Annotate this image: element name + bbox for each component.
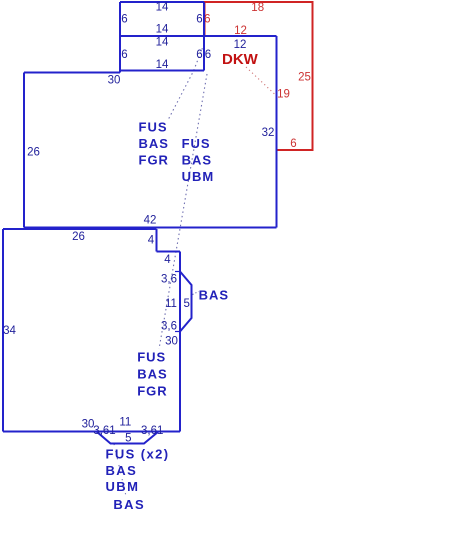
- svg-text:6: 6: [196, 49, 202, 61]
- svg-text:6: 6: [205, 49, 211, 61]
- svg-text:18: 18: [251, 2, 264, 14]
- svg-text:FUS: FUS: [137, 350, 166, 365]
- svg-text:BAS: BAS: [113, 497, 145, 512]
- svg-text:4: 4: [164, 254, 171, 266]
- svg-text:BAS: BAS: [106, 463, 138, 478]
- svg-text:30: 30: [165, 335, 178, 347]
- svg-text:4: 4: [148, 235, 155, 247]
- svg-text:11: 11: [119, 416, 131, 428]
- svg-text:32: 32: [262, 127, 275, 139]
- svg-text:30: 30: [108, 74, 121, 86]
- svg-text:6: 6: [204, 13, 210, 25]
- svg-text:UBM: UBM: [106, 479, 140, 494]
- svg-text:3,61: 3,61: [93, 425, 115, 437]
- svg-text:34: 34: [3, 325, 16, 337]
- svg-text:3,6: 3,6: [161, 273, 177, 285]
- svg-text:14: 14: [156, 23, 169, 35]
- svg-text:FGR: FGR: [137, 383, 167, 398]
- svg-text:FUS (x2): FUS (x2): [106, 446, 170, 461]
- svg-text:FUS: FUS: [139, 119, 168, 134]
- svg-text:FUS: FUS: [182, 136, 211, 151]
- svg-text:42: 42: [144, 215, 157, 227]
- svg-text:12: 12: [234, 25, 247, 37]
- svg-text:BAS: BAS: [137, 367, 167, 382]
- svg-text:3,6: 3,6: [161, 321, 177, 333]
- svg-text:6: 6: [290, 138, 296, 150]
- svg-text:12: 12: [234, 39, 247, 51]
- svg-text:5: 5: [183, 298, 189, 310]
- svg-text:6: 6: [121, 13, 127, 25]
- svg-text:25: 25: [298, 71, 311, 83]
- svg-text:26: 26: [27, 146, 40, 158]
- svg-text:6: 6: [196, 13, 202, 25]
- svg-text:3,61: 3,61: [141, 425, 163, 437]
- svg-text:BAS: BAS: [182, 152, 212, 167]
- svg-text:19: 19: [277, 89, 290, 101]
- svg-text:UBM: UBM: [182, 169, 215, 184]
- svg-text:14: 14: [156, 2, 169, 14]
- svg-text:14: 14: [156, 36, 169, 48]
- svg-text:5: 5: [125, 433, 131, 445]
- svg-text:BAS: BAS: [139, 136, 169, 151]
- svg-text:BAS: BAS: [199, 288, 229, 303]
- svg-text:26: 26: [72, 231, 85, 243]
- svg-text:DKW: DKW: [222, 51, 259, 68]
- svg-text:11: 11: [165, 298, 177, 310]
- svg-text:14: 14: [156, 59, 169, 71]
- svg-text:FGR: FGR: [139, 152, 169, 167]
- svg-text:6: 6: [121, 49, 127, 61]
